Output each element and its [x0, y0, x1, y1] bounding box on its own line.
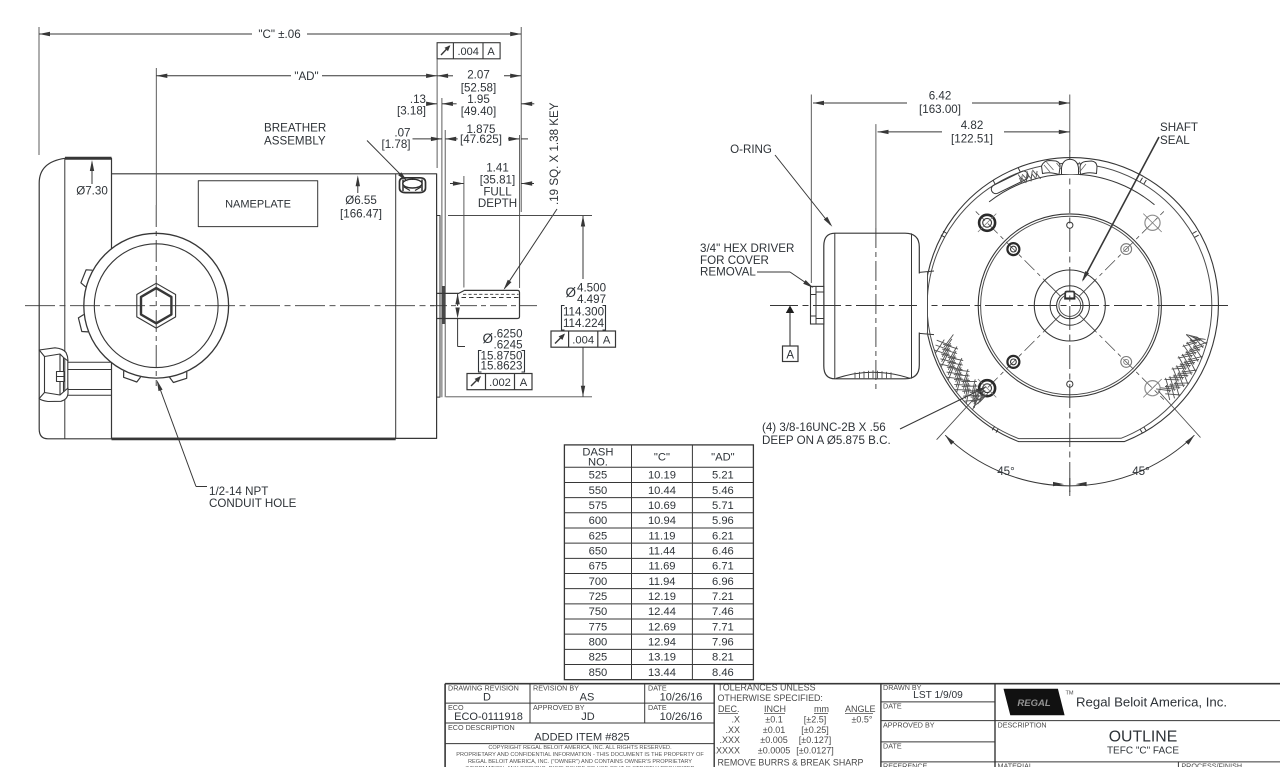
svg-text:575: 575 — [589, 500, 608, 512]
svg-text:725: 725 — [589, 591, 608, 603]
key leader — [505, 209, 558, 289]
logo parallelogram — [1004, 689, 1065, 716]
dim "C" overall — [38, 27, 40, 155]
slinger bar — [441, 216, 443, 398]
svg-text:Ø: Ø — [482, 331, 493, 346]
svg-text:2.07: 2.07 — [467, 69, 490, 82]
svg-text:10.94: 10.94 — [648, 515, 676, 527]
svg-text:45°: 45° — [1132, 465, 1150, 478]
dia .6250 dim arrows — [457, 293, 459, 306]
svg-text:[166.47]: [166.47] — [340, 208, 382, 221]
seal housing screws (4) — [1007, 243, 1019, 255]
svg-text:12.44: 12.44 — [648, 606, 676, 618]
svg-text:[122.51]: [122.51] — [951, 132, 993, 145]
breather assembly nut — [400, 178, 426, 193]
flange small holes top/bottom — [1067, 222, 1073, 228]
svg-text:.XX: .XX — [725, 725, 740, 735]
base rails between clamp and body — [68, 361, 112, 363]
svg-text:COPYRIGHT REGAL BELOIT AMERICA: COPYRIGHT REGAL BELOIT AMERICA, INC. ALL… — [488, 745, 672, 751]
svg-text:JD: JD — [581, 711, 595, 723]
svg-text:REMOVE BURRS & BREAK SHARP: REMOVE BURRS & BREAK SHARP — [718, 758, 864, 768]
svg-text:OUTLINE: OUTLINE — [1109, 729, 1177, 746]
svg-text:PROPRIETARY AND CONFIDENTIAL I: PROPRIETARY AND CONFIDENTIAL INFORMATION… — [456, 752, 704, 758]
runout FCF (4.500) — [551, 331, 616, 347]
title block — [445, 684, 1280, 767]
svg-text:[163.00]: [163.00] — [919, 103, 961, 116]
shaft centerline — [430, 305, 540, 307]
dim "AD" — [155, 68, 157, 205]
dia 4.500 dim line — [582, 216, 584, 280]
svg-text:AS: AS — [580, 692, 595, 704]
svg-text:12.69: 12.69 — [648, 621, 676, 633]
svg-text:A: A — [487, 46, 495, 58]
svg-text:775: 775 — [589, 621, 608, 633]
svg-text:625: 625 — [589, 530, 608, 542]
neck between box and motor — [917, 274, 928, 333]
svg-text:ADDED ITEM #825: ADDED ITEM #825 — [534, 732, 629, 744]
conduit hole label — [158, 382, 197, 487]
svg-text:11.44: 11.44 — [648, 546, 675, 558]
svg-text:11.94: 11.94 — [648, 576, 675, 588]
svg-text:6.46: 6.46 — [712, 546, 734, 558]
ring ribs — [1193, 231, 1197, 233]
svg-text:10.69: 10.69 — [648, 500, 676, 512]
diagonal hole centerlines — [1087, 211, 1164, 288]
svg-text:±0.5°: ±0.5° — [851, 715, 872, 725]
svg-text:±0.0005: ±0.0005 — [758, 745, 790, 755]
svg-text:NO.: NO. — [588, 457, 608, 469]
svg-text:MATERIAL: MATERIAL — [998, 761, 1033, 767]
svg-text:ANGLE: ANGLE — [845, 704, 876, 714]
svg-text:6.21: 6.21 — [712, 530, 734, 542]
svg-text:7.71: 7.71 — [712, 621, 734, 633]
svg-text:800: 800 — [589, 637, 608, 649]
svg-text:45°: 45° — [997, 465, 1015, 478]
svg-text:[47.625]: [47.625] — [460, 133, 502, 146]
svg-text:.X: .X — [731, 715, 740, 725]
svg-text:Ø6.55: Ø6.55 — [345, 194, 377, 207]
svg-text:7.96: 7.96 — [712, 637, 734, 649]
svg-text:.XXXX: .XXXX — [713, 745, 740, 755]
svg-text:NAMEPLATE: NAMEPLATE — [225, 199, 291, 211]
svg-text:DATE: DATE — [883, 742, 902, 751]
cover latch (upper-left) — [988, 165, 1030, 195]
svg-text:±0.1: ±0.1 — [765, 715, 782, 725]
right view centerlines — [770, 305, 1232, 307]
svg-text:550: 550 — [589, 485, 608, 497]
cover screw tabs — [78, 315, 88, 332]
shaft — [436, 290, 519, 318]
svg-text:OTHERWISE SPECIFIED:: OTHERWISE SPECIFIED: — [718, 693, 823, 703]
svg-text:DESCRIPTION: DESCRIPTION — [998, 721, 1047, 730]
datum A flag — [786, 306, 794, 314]
svg-text:REVISION BY: REVISION BY — [533, 684, 579, 693]
svg-text:8.46: 8.46 — [712, 667, 734, 679]
svg-text:11.19: 11.19 — [648, 530, 675, 542]
vertical centerline conduit circle — [155, 205, 157, 386]
dim 6.42 — [810, 95, 812, 284]
svg-text:TOLERANCES UNLESS: TOLERANCES UNLESS — [718, 683, 816, 693]
svg-text:675: 675 — [589, 561, 608, 573]
svg-text:825: 825 — [589, 652, 608, 664]
svg-text:"C" ±.06: "C" ±.06 — [258, 28, 300, 41]
svg-text:7.21: 7.21 — [712, 591, 734, 603]
svg-text:8.21: 8.21 — [712, 652, 734, 664]
svg-text:ECO-0111918: ECO-0111918 — [454, 711, 523, 723]
svg-text:A: A — [786, 349, 794, 361]
svg-text:6.42: 6.42 — [929, 90, 952, 103]
svg-text:A: A — [520, 377, 528, 389]
outer fan cover circles — [924, 157, 1219, 443]
svg-text:Regal Beloit America, Inc.: Regal Beloit America, Inc. — [1076, 695, 1227, 710]
motor body frame — [112, 174, 437, 439]
svg-text:(4) 3/8-16UNC-2B X .56: (4) 3/8-16UNC-2B X .56 — [762, 421, 886, 434]
center dome bump between clips — [1062, 159, 1079, 174]
svg-text:PROCESS/FINISH: PROCESS/FINISH — [1181, 761, 1242, 767]
svg-text:REGAL: REGAL — [1017, 698, 1050, 709]
C-face pilot rectangle — [437, 216, 440, 398]
spokes — [1079, 281, 1094, 296]
svg-text:11.69: 11.69 — [648, 561, 675, 573]
svg-text:5.71: 5.71 — [712, 500, 734, 512]
svg-text:13.19: 13.19 — [648, 652, 676, 664]
svg-text:.002: .002 — [489, 377, 511, 389]
conduit box vertical centerline — [875, 228, 877, 390]
svg-text:CONDUIT HOLE: CONDUIT HOLE — [209, 497, 297, 510]
dim 1.41 full depth — [453, 181, 464, 185]
end-bell seam — [395, 174, 397, 439]
center: seal housing and shaft — [1034, 270, 1105, 341]
svg-text:A: A — [603, 335, 611, 347]
svg-text:±0.01: ±0.01 — [763, 725, 785, 735]
svg-text:4.82: 4.82 — [961, 119, 984, 132]
svg-text:[±0.0127]: [±0.0127] — [796, 745, 833, 755]
svg-text:.004: .004 — [572, 335, 594, 347]
svg-text:"C": "C" — [654, 451, 670, 463]
svg-text:114.224: 114.224 — [563, 317, 605, 330]
svg-text:INCH: INCH — [764, 704, 786, 714]
fan cover top clips — [1042, 159, 1098, 174]
svg-text:TM: TM — [1066, 691, 1074, 697]
svg-text:[49.40]: [49.40] — [461, 105, 496, 118]
svg-text:DEC.: DEC. — [718, 704, 740, 714]
flange double circle — [978, 214, 1161, 397]
svg-text:±0.005: ±0.005 — [760, 735, 787, 745]
conduit box cover circle — [84, 233, 229, 378]
hex driver boss — [811, 286, 824, 324]
svg-text:5.21: 5.21 — [712, 470, 734, 482]
svg-text:"AD": "AD" — [294, 70, 318, 83]
svg-text:DEPTH: DEPTH — [478, 197, 517, 210]
svg-text:Ø: Ø — [565, 285, 576, 300]
svg-text:4.497: 4.497 — [577, 293, 606, 306]
svg-text:[3.18]: [3.18] — [397, 105, 426, 118]
fan cover dome arc (top sector) — [989, 174, 1154, 205]
svg-text:12.19: 12.19 — [648, 591, 676, 603]
svg-text:Ø7.30: Ø7.30 — [76, 184, 108, 197]
mounting bolt holes (4) on 5.875 B.C. — [979, 215, 995, 231]
key hidden lines — [463, 293, 519, 295]
svg-text:TEFC "C" FACE: TEFC "C" FACE — [1107, 746, 1179, 757]
hex plug: inner bold hex — [141, 288, 171, 323]
fan cover (left end cap) — [39, 158, 111, 439]
svg-text:REGAL BELOIT AMERICA, INC. ("O: REGAL BELOIT AMERICA, INC. ("OWNER") AND… — [468, 759, 692, 765]
svg-text:10/26/16: 10/26/16 — [660, 711, 703, 723]
svg-text:10/26/16: 10/26/16 — [660, 692, 703, 704]
dash number table — [564, 445, 753, 680]
nameplate — [198, 181, 317, 227]
dim 2.07 — [437, 75, 453, 77]
svg-text:750: 750 — [589, 606, 608, 618]
svg-text:SEAL: SEAL — [1160, 134, 1190, 147]
svg-text:REMOVAL: REMOVAL — [700, 266, 756, 279]
frame bottom thick edge — [112, 438, 396, 441]
svg-text:[±0.127]: [±0.127] — [799, 735, 831, 745]
right view: C-face end view — [924, 157, 1219, 443]
svg-text:[±2.5]: [±2.5] — [804, 715, 826, 725]
45 deg dimension arc — [945, 435, 1194, 486]
svg-text:700: 700 — [589, 576, 608, 588]
svg-text:DATE: DATE — [883, 702, 902, 711]
horizontal centerline left view — [25, 305, 434, 307]
runout FCF (.6250) — [467, 374, 532, 390]
svg-text:15.8623: 15.8623 — [481, 360, 523, 373]
svg-text:6.96: 6.96 — [712, 576, 734, 588]
fan cover seam — [64, 159, 66, 439]
svg-text:APPROVED BY: APPROVED BY — [533, 703, 585, 712]
svg-text:REFERENCE: REFERENCE — [883, 761, 928, 767]
svg-text:SHAFT: SHAFT — [1160, 121, 1198, 134]
svg-text:[1.78]: [1.78] — [381, 138, 410, 151]
svg-text:APPROVED BY: APPROVED BY — [883, 721, 935, 730]
svg-text:12.94: 12.94 — [648, 637, 676, 649]
svg-text:600: 600 — [589, 515, 608, 527]
svg-text:BREATHER: BREATHER — [264, 122, 326, 135]
hex plug: outer hex — [137, 283, 176, 328]
cord clamp bracket (lower left) — [39, 348, 68, 402]
cover grip arc — [836, 372, 910, 378]
svg-text:D: D — [483, 692, 491, 704]
dim 4.82 — [875, 124, 877, 228]
svg-text:10.44: 10.44 — [648, 485, 676, 497]
bolt hole cross ticks — [1143, 214, 1161, 232]
svg-text:O-RING: O-RING — [730, 143, 772, 156]
svg-text:ASSEMBLY: ASSEMBLY — [264, 135, 326, 148]
conduit box cylinder (side) — [824, 233, 920, 379]
svg-text:.XXX: .XXX — [719, 735, 740, 745]
svg-text:850: 850 — [589, 667, 608, 679]
svg-text:650: 650 — [589, 546, 608, 558]
runout FCF (top) — [437, 43, 500, 59]
svg-text:ECO DESCRIPTION: ECO DESCRIPTION — [448, 723, 515, 732]
svg-text:10.19: 10.19 — [648, 470, 676, 482]
svg-text:"AD": "AD" — [711, 451, 735, 463]
svg-text:7.46: 7.46 — [712, 606, 734, 618]
bolt hole extension diagonals — [937, 391, 982, 440]
svg-text:6.71: 6.71 — [712, 561, 734, 573]
grip squiggle sectors — [944, 335, 953, 348]
keyway — [1065, 292, 1074, 299]
left view: side elevation of motor — [39, 98, 540, 439]
svg-text:[±0.25]: [±0.25] — [801, 725, 828, 735]
svg-text:mm: mm — [814, 704, 829, 714]
svg-text:DEEP ON A Ø5.875 B.C.: DEEP ON A Ø5.875 B.C. — [762, 434, 891, 447]
svg-text:13.44: 13.44 — [648, 667, 676, 679]
svg-text:.19 SQ. X 1.38 KEY: .19 SQ. X 1.38 KEY — [548, 102, 561, 205]
svg-text:525: 525 — [589, 470, 608, 482]
svg-text:LST 1/9/09: LST 1/9/09 — [913, 690, 963, 701]
svg-text:5.96: 5.96 — [712, 515, 734, 527]
svg-text:5.46: 5.46 — [712, 485, 734, 497]
svg-text:.004: .004 — [457, 46, 478, 58]
